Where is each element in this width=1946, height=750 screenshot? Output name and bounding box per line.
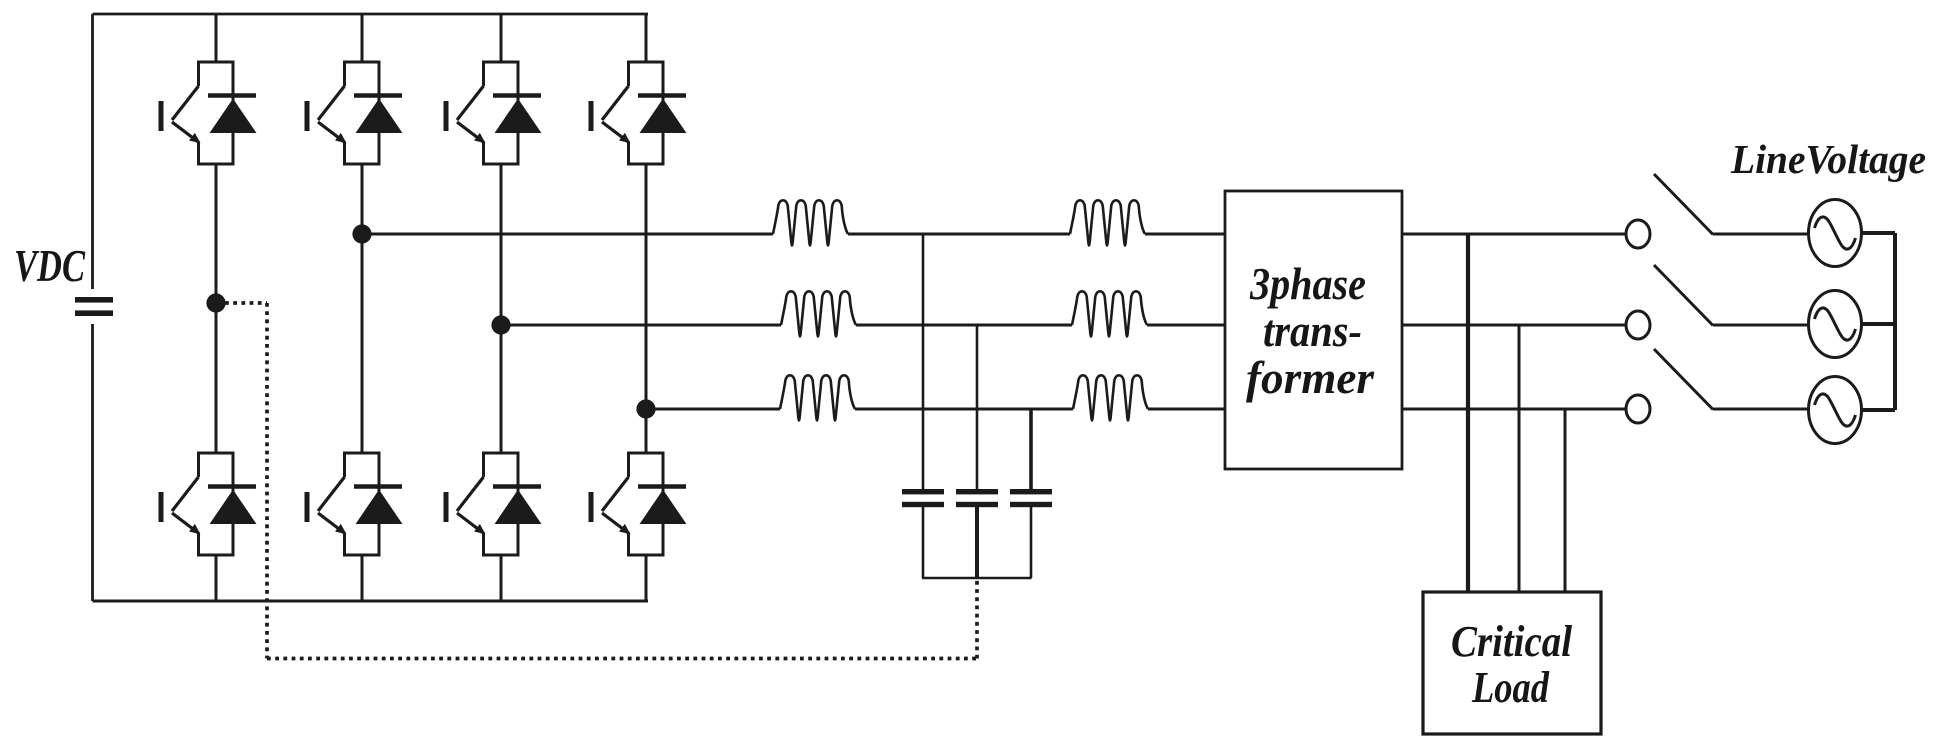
IGBT Q3 top with diode D3 — [446, 62, 541, 164]
neutral node N — [206, 293, 225, 312]
wire leg 1 collector drop — [215, 14, 218, 62]
wire cap tap phase A — [922, 234, 925, 489]
wire phase B to transformer — [1147, 324, 1225, 327]
svg-text:Load: Load — [1471, 663, 1550, 712]
IGBT Q8 bottom with diode D8 — [591, 453, 686, 555]
wire phase A to transformer — [1145, 233, 1225, 236]
wire phase A inverter segment — [362, 233, 773, 236]
capacitor C3 — [1010, 489, 1052, 507]
wire top DC bus — [93, 13, 649, 16]
wire left DC rail lower — [91, 324, 94, 601]
wire leg 3 collector drop — [500, 14, 503, 62]
IGBT Q2 top with diode D2 — [307, 62, 402, 164]
svg-text:LineVoltage: LineVoltage — [1730, 136, 1926, 182]
wire cap tap phase C — [1029, 409, 1033, 489]
wire cap A lower lead — [922, 507, 925, 578]
wire phase A mid segment — [848, 233, 1070, 236]
inductor L1 phase A — [773, 200, 848, 245]
IGBT Q4 top with diode D4 — [591, 62, 686, 164]
svg-text:trans-: trans- — [1263, 306, 1362, 356]
capacitor C1 — [902, 489, 944, 507]
inductor L3 phase C — [780, 375, 855, 420]
svg-text:Critical: Critical — [1451, 617, 1573, 666]
wire load tap phase B — [1518, 325, 1521, 592]
phase A node — [352, 224, 371, 243]
wire leg 4 collector drop — [645, 14, 648, 62]
inductor L6 phase C — [1073, 375, 1148, 420]
wire leg 3 midpoint — [500, 164, 503, 453]
wire grid neutral bus — [1893, 233, 1897, 410]
wire source B to neutral bus — [1862, 322, 1896, 326]
inductor L5 phase B — [1072, 291, 1147, 336]
wire cap B lower lead — [975, 507, 979, 578]
wire cap C lower lead — [1030, 507, 1033, 578]
svg-text:3phase: 3phase — [1249, 259, 1366, 309]
wire leg 1 emitter to bus — [215, 555, 218, 601]
IGBT Q1 top with diode D1 — [161, 62, 256, 164]
wire left DC rail upper — [91, 14, 94, 289]
svg-text:VDC: VDC — [14, 241, 86, 291]
wire switch B to source — [1713, 324, 1809, 327]
IGBT Q6 bottom with diode D6 — [307, 453, 402, 555]
wire leg 4 emitter to bus — [645, 555, 648, 601]
phase C node — [636, 399, 655, 418]
wire phase B transformer to switch — [1402, 324, 1626, 327]
IGBT Q5 bottom with diode D5 — [161, 453, 256, 555]
wire phase B inverter segment — [501, 324, 781, 327]
wire load tap phase C — [1564, 409, 1567, 592]
wire switch A to source — [1713, 233, 1809, 236]
wire leg 4 midpoint — [645, 164, 648, 453]
switch S3 phase C — [1626, 349, 1713, 423]
wire phase C transformer to switch — [1402, 408, 1626, 411]
switch S2 phase B — [1626, 265, 1713, 339]
capacitor C2 — [956, 489, 998, 507]
IGBT Q7 bottom with diode D7 — [446, 453, 541, 555]
wire leg 2 emitter to bus — [361, 555, 364, 601]
wire leg 2 collector drop — [361, 14, 364, 62]
DC source VDC plates — [75, 297, 113, 316]
wire phase C inverter segment — [646, 408, 780, 411]
svg-text:former: former — [1246, 353, 1374, 403]
AC source G1 phase A — [1809, 200, 1862, 267]
wire cap tap phase B — [976, 325, 979, 489]
inductor L4 phase A — [1070, 200, 1145, 245]
wire leg 2 midpoint — [361, 164, 364, 453]
wire phase A transformer to switch — [1402, 233, 1626, 236]
wire leg 1 midpoint — [215, 164, 218, 453]
wire source C to neutral bus — [1862, 408, 1896, 412]
inductor L2 phase B — [781, 291, 856, 336]
3-phase transformer box T1 — [1225, 191, 1402, 469]
switch S1 phase A — [1626, 174, 1713, 248]
wire phase C mid segment — [855, 408, 1073, 411]
wire capacitor common bus — [922, 577, 1032, 580]
wire phase C to transformer — [1148, 408, 1225, 411]
wire source A to neutral bus — [1862, 231, 1896, 235]
wire switch C to source — [1713, 408, 1809, 411]
wire dotted neutral link — [225, 303, 977, 659]
AC source G3 phase C — [1809, 377, 1862, 444]
AC source G2 phase B — [1809, 291, 1862, 358]
phase B node — [491, 315, 510, 334]
critical load box — [1423, 592, 1601, 734]
wire leg 3 emitter to bus — [500, 555, 503, 601]
wire load tap phase A — [1466, 234, 1470, 592]
wire phase B mid segment — [856, 324, 1072, 327]
wire bottom DC bus — [93, 600, 649, 603]
